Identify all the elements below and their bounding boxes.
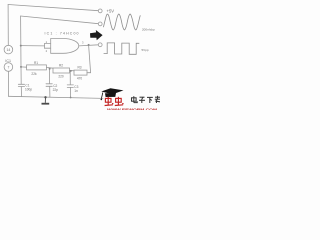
wire inner rail to sine terminal xyxy=(21,16,99,24)
watermark 虫 first (red, drawn) xyxy=(105,97,114,106)
watermark 电 (drawn) xyxy=(132,96,138,102)
wire pin7 to ground rail xyxy=(7,71,9,96)
junction R1-R2 / C2 xyxy=(49,68,51,70)
capacitor C2 top lead xyxy=(48,69,50,83)
capacitor C3 top lead xyxy=(69,71,71,85)
svg-text:7: 7 xyxy=(7,65,9,69)
resistor R1 body xyxy=(27,65,47,70)
wire rail to R1 xyxy=(21,66,27,68)
wire gate input pin 2 xyxy=(45,47,51,49)
svg-text:200mVpp: 200mVpp xyxy=(142,28,155,32)
svg-text:220: 220 xyxy=(58,75,64,79)
svg-text:22p: 22p xyxy=(53,88,59,92)
pin 7 (IC1 GND) xyxy=(4,63,13,72)
wire left VCC vertical xyxy=(7,5,9,46)
terminal square output xyxy=(98,43,102,47)
resistor R3 body xyxy=(74,70,87,75)
ground symbol xyxy=(44,97,46,103)
wire gate output to terminal xyxy=(79,45,98,46)
junction R1 left / C1 xyxy=(20,66,22,68)
wire gate input pin 1 xyxy=(45,43,51,45)
wire gate input feed xyxy=(21,45,45,47)
svg-text:100p: 100p xyxy=(25,87,32,91)
svg-text:470: 470 xyxy=(77,77,83,81)
capacitor C3 bottom lead xyxy=(69,88,71,98)
capacitor C1 bottom lead xyxy=(20,87,22,97)
watermark 子 (drawn) xyxy=(139,97,145,103)
watermark 载 (drawn, cut at edge) xyxy=(155,96,160,103)
svg-text:IC1 : 74HC00: IC1 : 74HC00 xyxy=(45,31,79,35)
sine waveform sketch xyxy=(104,14,141,30)
svg-text:+5V: +5V xyxy=(107,9,115,14)
junction ground stub on rail xyxy=(44,96,46,98)
watermark 虫 second (red, drawn) xyxy=(115,97,124,106)
gate IC1 74HC00 body xyxy=(51,39,79,54)
svg-text:IC1: IC1 xyxy=(5,59,11,63)
svg-text:WWW.EEWORM.COM: WWW.EEWORM.COM xyxy=(107,108,157,110)
junction gate input node xyxy=(20,45,22,47)
wire ground rail xyxy=(8,96,103,98)
junction C3 at ground rail xyxy=(70,97,72,99)
capacitor C1 plates xyxy=(18,83,24,85)
svg-text:5Vpp: 5Vpp xyxy=(142,48,149,52)
wire +5V top rail xyxy=(8,5,98,11)
svg-text:1n: 1n xyxy=(74,89,78,93)
wire output riser to R3 xyxy=(87,45,91,73)
svg-text:R2: R2 xyxy=(59,64,63,68)
wire R2 to R3 xyxy=(70,69,75,71)
resistor R2 body xyxy=(53,68,70,73)
pin 14 (IC1 VCC) xyxy=(4,45,13,54)
terminal +5V xyxy=(98,9,102,13)
svg-text:14: 14 xyxy=(7,48,11,52)
wire inner left vertical (gate input node) xyxy=(20,16,22,67)
wire R1 to R2 xyxy=(46,66,53,69)
capacitor C3 plates xyxy=(67,84,73,86)
wire input split bar xyxy=(44,43,46,48)
watermark cap tassel xyxy=(101,93,102,99)
capacitor C1 top lead xyxy=(20,67,22,84)
svg-text:22k: 22k xyxy=(31,72,37,76)
junction output node xyxy=(88,44,90,46)
terminal sine output xyxy=(98,22,102,26)
junction R2-R3 / C3 xyxy=(70,70,72,72)
annotation arrow (black) xyxy=(90,30,103,40)
capacitor C2 plates xyxy=(46,83,52,85)
svg-text:R1: R1 xyxy=(34,61,38,65)
watermark 下 (drawn) xyxy=(147,97,153,103)
capacitor C2 bottom lead xyxy=(49,87,51,98)
square waveform sketch xyxy=(104,43,140,54)
watermark graduation cap base xyxy=(105,93,116,97)
watermark graduation cap board xyxy=(101,88,123,94)
svg-text:R3: R3 xyxy=(77,66,81,70)
